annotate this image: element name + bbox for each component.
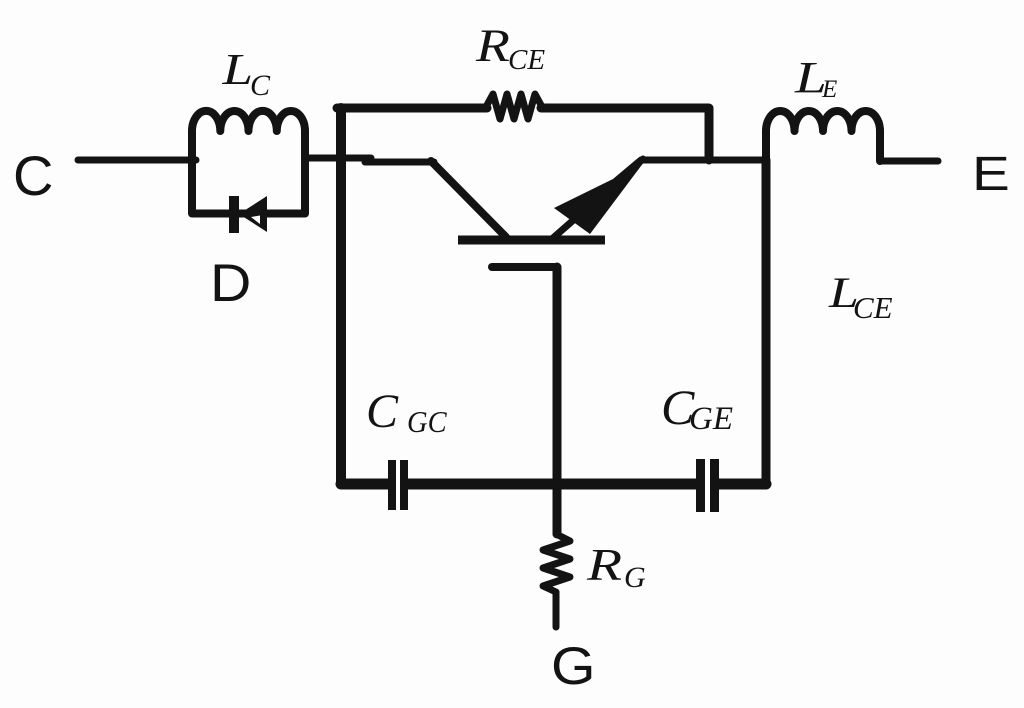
svg-text:C: C	[366, 385, 399, 438]
svg-text:E: E	[821, 76, 837, 103]
svg-text:GE: GE	[689, 401, 733, 437]
svg-text:R: R	[586, 540, 622, 590]
svg-text:CE: CE	[853, 290, 893, 325]
svg-text:D: D	[210, 253, 251, 313]
svg-text:C: C	[13, 144, 53, 207]
svg-text:GC: GC	[407, 405, 448, 439]
svg-text:C: C	[250, 69, 271, 102]
svg-text:G: G	[551, 636, 596, 696]
svg-text:G: G	[624, 561, 646, 594]
svg-text:CE: CE	[508, 44, 545, 76]
svg-text:L: L	[221, 45, 253, 94]
svg-text:R: R	[475, 20, 510, 72]
svg-text:E: E	[972, 147, 1010, 201]
